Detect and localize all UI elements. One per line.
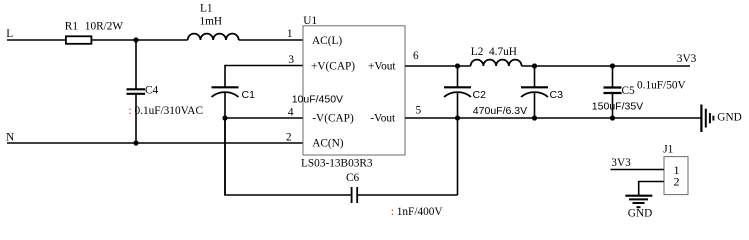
node C2 bottom junction — [455, 115, 460, 120]
svg-text:C1: C1 — [242, 89, 256, 101]
svg-text:0.1uF/50V: 0.1uF/50V — [637, 79, 686, 91]
node C5 top junction — [610, 63, 615, 68]
svg-text:6: 6 — [413, 50, 419, 62]
capacitor C1 — [212, 86, 239, 88]
svg-text:-V(CAP): -V(CAP) — [312, 112, 354, 124]
svg-text:C3: C3 — [550, 89, 564, 101]
svg-text:U1: U1 — [303, 15, 317, 27]
svg-text:: 0.1uF/310VAC: : 0.1uF/310VAC — [129, 105, 204, 117]
capacitor C3 — [534, 66, 536, 87]
wire 3V3 to J1 pin1 — [611, 169, 665, 171]
ground symbol bottom — [625, 195, 652, 197]
wire bottom loop — [225, 118, 352, 195]
svg-text:L1: L1 — [200, 2, 213, 14]
node C5 bottom junction — [610, 115, 615, 120]
node A junction — [133, 37, 138, 42]
IC module U1 — [303, 26, 405, 155]
inductor L1 — [188, 34, 239, 40]
connector J1 — [664, 157, 688, 195]
capacitor C2 — [457, 66, 459, 87]
svg-text:J1: J1 — [663, 143, 673, 155]
svg-text:1mH: 1mH — [200, 15, 223, 27]
wire L input to R1 — [7, 39, 66, 41]
svg-text:+V(CAP): +V(CAP) — [311, 60, 355, 72]
svg-text:C2: C2 — [473, 89, 487, 101]
wire R1 to node A — [91, 39, 136, 41]
node C3 top junction — [532, 63, 537, 68]
svg-text:AC(L): AC(L) — [312, 35, 342, 47]
svg-text:: 1nF/400V: : 1nF/400V — [391, 206, 444, 218]
wire L1 to U1 pin1 — [239, 39, 303, 41]
wire N to U1 pin2 — [7, 142, 303, 144]
ground symbol right — [700, 105, 702, 133]
svg-text:150uF/35V: 150uF/35V — [592, 101, 643, 113]
wire U1 pin3 to C1 — [225, 66, 303, 88]
svg-text:L2 4.7uH: L2 4.7uH — [471, 46, 517, 58]
svg-text:4: 4 — [288, 107, 294, 119]
svg-text:GND: GND — [717, 112, 741, 124]
wire U1 pin6 to L2 — [405, 65, 471, 67]
svg-text:C4: C4 — [145, 85, 159, 97]
svg-text:GND: GND — [628, 208, 652, 220]
svg-text:5: 5 — [416, 104, 422, 116]
node C2 top junction — [455, 63, 460, 68]
svg-text:N: N — [6, 132, 14, 144]
svg-text:L: L — [6, 28, 13, 40]
wire U1 pin5 to GND — [405, 117, 701, 119]
svg-text:3V3: 3V3 — [611, 157, 631, 169]
resistor R1 — [66, 36, 92, 44]
svg-text:2: 2 — [674, 175, 680, 189]
svg-text:C6: C6 — [346, 172, 360, 184]
svg-text:-Vout: -Vout — [370, 112, 396, 124]
svg-text:+Vout: +Vout — [368, 60, 396, 72]
wire node A to L1 — [136, 39, 188, 41]
node pin4 junction — [222, 115, 227, 120]
svg-text:1: 1 — [287, 28, 293, 40]
svg-text:R1: R1 — [65, 21, 78, 33]
wire C6 to C2 bottom — [357, 194, 457, 196]
node C3 bottom junction — [532, 115, 537, 120]
svg-text:C5: C5 — [622, 85, 636, 97]
svg-text:3V3: 3V3 — [677, 53, 697, 65]
capacitor C6 — [351, 187, 353, 203]
capacitor C4 — [135, 40, 137, 89]
node on N wire — [133, 140, 138, 145]
svg-text:2: 2 — [286, 131, 292, 143]
inductor L2 — [471, 60, 522, 66]
capacitor C5 — [612, 66, 614, 88]
wire L2 to 3V3 output — [522, 65, 690, 67]
svg-text:10uF/450V: 10uF/450V — [292, 94, 343, 106]
svg-text:470uF/6.3V: 470uF/6.3V — [473, 105, 527, 117]
svg-text:AC(N): AC(N) — [312, 137, 344, 149]
svg-text:3: 3 — [288, 54, 294, 66]
svg-text:10R/2W: 10R/2W — [85, 21, 124, 33]
wire C1 to U1 pin4 — [225, 117, 303, 119]
wire J1 pin2 to ground — [639, 182, 664, 196]
svg-text:LS03-13B03R3: LS03-13B03R3 — [301, 158, 373, 170]
